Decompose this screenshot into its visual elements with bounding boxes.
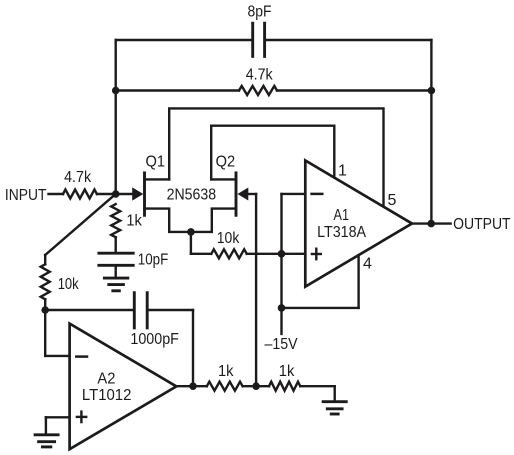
svg-text:1k: 1k <box>279 363 295 380</box>
svg-text:–15V: –15V <box>265 336 298 353</box>
svg-text:Q2: Q2 <box>216 154 236 171</box>
svg-text:8pF: 8pF <box>248 4 272 21</box>
svg-text:10k: 10k <box>58 276 80 293</box>
svg-text:1k: 1k <box>218 363 234 380</box>
svg-text:5: 5 <box>388 192 397 209</box>
svg-text:1000pF: 1000pF <box>130 331 179 348</box>
svg-text:4.7k: 4.7k <box>64 169 92 186</box>
svg-text:4: 4 <box>363 256 372 273</box>
svg-text:Q1: Q1 <box>146 154 166 171</box>
svg-text:10pF: 10pF <box>138 252 169 269</box>
svg-text:1k: 1k <box>126 213 142 230</box>
svg-text:LT318A: LT318A <box>317 224 366 241</box>
svg-text:1: 1 <box>338 163 347 180</box>
svg-text:4.7k: 4.7k <box>246 67 274 84</box>
svg-text:2N5638: 2N5638 <box>167 186 217 203</box>
svg-text:INPUT: INPUT <box>5 187 47 204</box>
svg-text:10k: 10k <box>217 230 240 247</box>
svg-text:OUTPUT: OUTPUT <box>453 216 511 233</box>
svg-text:A1: A1 <box>334 207 350 224</box>
svg-text:A2: A2 <box>97 370 115 387</box>
svg-text:LT1012: LT1012 <box>82 387 132 404</box>
